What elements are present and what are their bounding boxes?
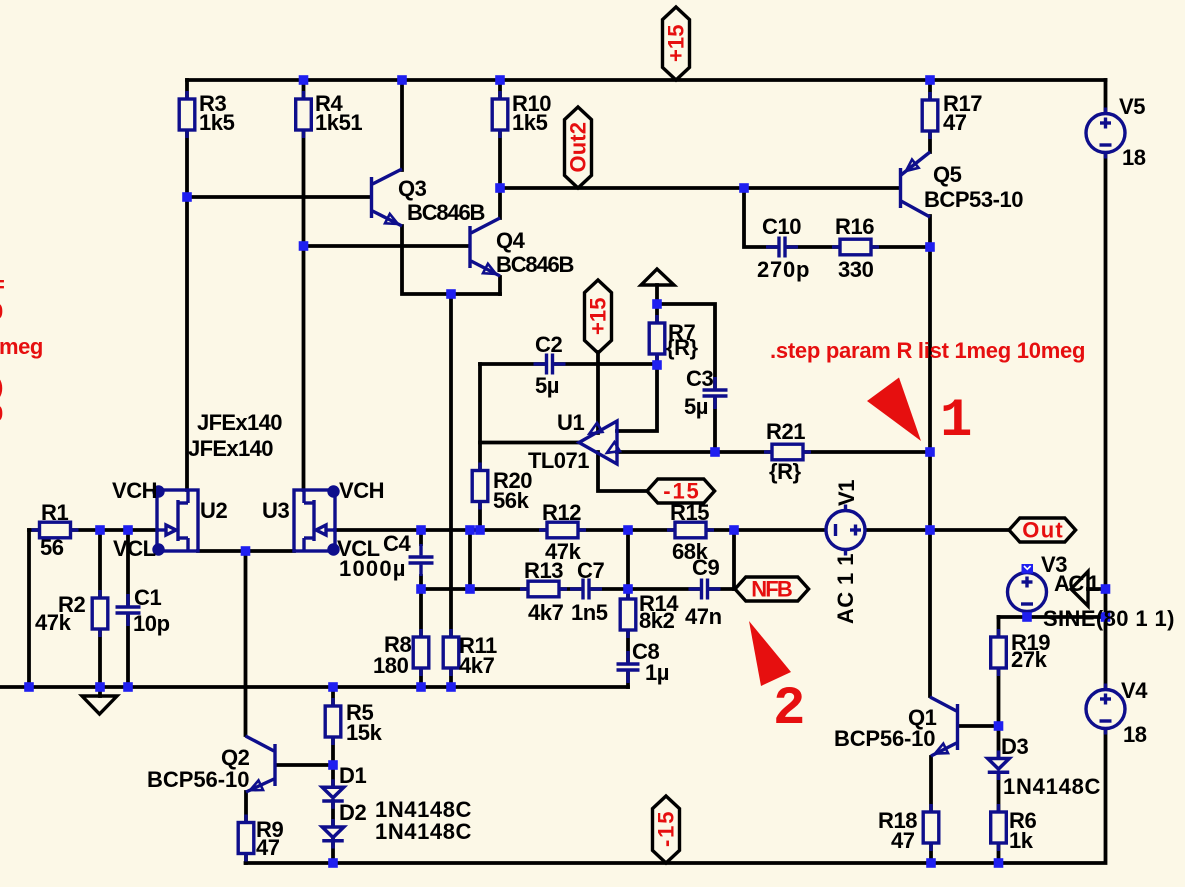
svg-text:2: 2 bbox=[773, 679, 805, 740]
wire R7 branch bbox=[655, 285, 659, 365]
wire R15 to V1 bbox=[706, 528, 826, 532]
resistor R17 bbox=[922, 92, 938, 139]
wire Q2 emitter to R9 bbox=[244, 792, 248, 822]
junction (734,530) bbox=[729, 525, 739, 535]
junction (1027,617) bbox=[1022, 612, 1032, 622]
resistor R20 bbox=[472, 463, 488, 510]
svg-text:JFEx140: JFEx140 bbox=[188, 436, 273, 461]
svg-text:JFEx140: JFEx140 bbox=[197, 410, 282, 435]
wire rail link a bbox=[468, 530, 472, 589]
voltage source V5 bbox=[1086, 108, 1125, 159]
junction (100,687) bbox=[95, 682, 105, 692]
svg-text:AC 1: AC 1 bbox=[1054, 571, 1099, 596]
resistor R1 bbox=[32, 522, 79, 538]
wire Q1 base bbox=[958, 724, 999, 728]
junction (628,530) bbox=[623, 525, 633, 535]
svg-text:D1: D1 bbox=[339, 763, 366, 788]
svg-text:10p: 10p bbox=[133, 611, 170, 636]
svg-text:BC846B: BC846B bbox=[496, 252, 574, 277]
annotation arrow near V3 bbox=[1071, 572, 1088, 607]
wire opamp V- to -15 flag bbox=[598, 452, 647, 491]
junction (1105.5,617) bbox=[1101, 612, 1111, 622]
wire C7 to C9 bbox=[592, 587, 699, 591]
svg-text:D3: D3 bbox=[1001, 734, 1028, 759]
svg-text:BCP53-10: BCP53-10 bbox=[924, 187, 1023, 212]
JFET U2 bbox=[154, 487, 198, 554]
wire rail link b bbox=[626, 530, 630, 589]
wire Q4 base bbox=[304, 244, 470, 248]
junction (480,530) bbox=[475, 525, 485, 535]
svg-text:18: 18 bbox=[1123, 722, 1147, 747]
svg-text:AC 1 1: AC 1 1 bbox=[833, 554, 858, 624]
junction (421,687) bbox=[416, 682, 426, 692]
svg-text:1: 1 bbox=[940, 391, 972, 452]
svg-text:Q5: Q5 bbox=[933, 162, 962, 187]
junction (402,80) bbox=[397, 75, 407, 85]
svg-text:R1: R1 bbox=[41, 500, 68, 525]
wire Q1 emitter to R18 bbox=[929, 757, 933, 812]
svg-text:-15: -15 bbox=[654, 812, 679, 847]
ground bbox=[82, 696, 117, 714]
wire ground mid rail bbox=[0, 685, 628, 689]
junction (998.5,863) bbox=[994, 858, 1004, 868]
svg-text:1k51: 1k51 bbox=[315, 110, 362, 135]
net flag Out (output node) bbox=[1009, 518, 1076, 542]
svg-text:47: 47 bbox=[256, 835, 280, 860]
junction (128,687) bbox=[123, 682, 133, 692]
svg-text:1N4148C: 1N4148C bbox=[375, 819, 472, 844]
resistor R14 bbox=[620, 591, 636, 638]
svg-text:C4: C4 bbox=[383, 531, 411, 556]
resistor R7 bbox=[649, 315, 665, 362]
wire row2 left bbox=[421, 587, 528, 591]
svg-text:1n5: 1n5 bbox=[571, 600, 608, 625]
wire C4 to R8 bbox=[419, 576, 423, 637]
wire D3 to R6 bbox=[997, 773, 1001, 812]
svg-text:+15: +15 bbox=[586, 298, 611, 335]
transistor Q4 bbox=[470, 218, 500, 276]
wire C10 R16 branch bbox=[744, 188, 930, 247]
svg-text:VCH: VCH bbox=[339, 478, 384, 503]
wire to D3 bbox=[997, 726, 1001, 757]
svg-text:47: 47 bbox=[943, 110, 967, 135]
svg-text:V4: V4 bbox=[1121, 678, 1148, 703]
wire V3 stub bbox=[1025, 611, 1029, 617]
svg-text:Q3: Q3 bbox=[398, 176, 427, 201]
junction (744,188) bbox=[739, 183, 749, 193]
junction (451,687) bbox=[446, 682, 456, 692]
svg-text:47k: 47k bbox=[35, 610, 72, 635]
resistor R8 bbox=[413, 629, 429, 676]
red arrow 1 bbox=[867, 378, 921, 442]
wire R19 top bbox=[997, 617, 1001, 637]
net flag NFB (feedback node) bbox=[735, 577, 809, 601]
wire R18 bottom bbox=[929, 845, 933, 863]
svg-text:.step param R list 1meg 10meg: .step param R list 1meg 10meg bbox=[770, 338, 1085, 363]
svg-text:1k: 1k bbox=[1009, 828, 1034, 853]
svg-text:180: 180 bbox=[373, 653, 409, 678]
wire source node to Q2 collector bbox=[244, 551, 248, 735]
resistor R15 bbox=[667, 522, 714, 538]
resistor R3 bbox=[179, 91, 195, 138]
wire Q4 emitter bbox=[498, 277, 502, 294]
svg-text:56k: 56k bbox=[493, 488, 530, 513]
svg-text:Out2: Out2 bbox=[566, 122, 591, 172]
svg-text:1k5: 1k5 bbox=[199, 110, 235, 135]
wire Q4 collector bbox=[498, 188, 502, 218]
red arrow 2 bbox=[749, 621, 791, 686]
svg-text:C7: C7 bbox=[577, 558, 604, 583]
marker V3 top pin bbox=[1022, 564, 1034, 574]
svg-text:Out: Out bbox=[1022, 518, 1063, 543]
wire V5 to V4 right rail bbox=[1104, 152, 1108, 690]
svg-text:C9: C9 bbox=[692, 555, 719, 580]
wire C2 R20 column bbox=[478, 364, 482, 530]
svg-text:VCL: VCL bbox=[337, 536, 380, 561]
junction (931,863) bbox=[926, 858, 936, 868]
svg-text:1k5: 1k5 bbox=[512, 110, 548, 135]
resistor R19 bbox=[991, 629, 1007, 676]
svg-text:C1: C1 bbox=[134, 585, 161, 610]
diode D2 bbox=[322, 819, 344, 849]
wire opamp output bbox=[480, 441, 579, 445]
wire R4 column to U3 drain bbox=[302, 80, 306, 490]
svg-text:+15: +15 bbox=[664, 25, 689, 62]
svg-text:8k2: 8k2 bbox=[639, 608, 675, 633]
svg-text:47: 47 bbox=[891, 828, 915, 853]
capacitor C1 bbox=[116, 605, 141, 614]
wire to V5 bbox=[1104, 80, 1108, 114]
wire R2 top bbox=[98, 530, 102, 598]
junction (470,530) bbox=[465, 525, 475, 535]
wire R12 to R15 bbox=[578, 528, 675, 532]
svg-text:SINE(80 1 1): SINE(80 1 1) bbox=[1043, 606, 1174, 631]
wire D2 to rail bbox=[331, 840, 335, 863]
junction (333,765) bbox=[328, 760, 338, 770]
svg-text:V1: V1 bbox=[834, 480, 859, 506]
voltage source V4 bbox=[1086, 684, 1125, 735]
junction (303.5,80) bbox=[299, 75, 309, 85]
wire R11 bottom bbox=[449, 668, 453, 687]
wire R2 bottom bbox=[98, 628, 102, 687]
wire V1 to Out flag bbox=[865, 528, 1009, 532]
svg-text:R21: R21 bbox=[766, 419, 805, 444]
wire Q3 base bbox=[187, 195, 371, 199]
transistor Q2 bbox=[246, 736, 276, 792]
junction (303.5,246) bbox=[299, 241, 309, 251]
svg-text:VCL: VCL bbox=[113, 536, 156, 561]
capacitor C10 bbox=[777, 237, 786, 258]
svg-text:VCH: VCH bbox=[112, 478, 157, 503]
wire ground stub bbox=[98, 687, 102, 696]
junction (930,530) bbox=[925, 525, 935, 535]
svg-text:R15: R15 bbox=[670, 500, 709, 525]
junction (470,589) bbox=[465, 584, 475, 594]
svg-text:5µ: 5µ bbox=[684, 394, 708, 419]
junction (657,304) bbox=[652, 299, 662, 309]
capacitor C3 bbox=[703, 388, 728, 397]
svg-text:V5: V5 bbox=[1119, 94, 1145, 119]
ground flag above R7 bbox=[641, 269, 674, 285]
svg-text:47n: 47n bbox=[685, 604, 722, 629]
capacitor C7 bbox=[581, 579, 590, 600]
transistor Q5 bbox=[901, 152, 931, 217]
svg-text:4k7: 4k7 bbox=[528, 600, 564, 625]
wire inverting input R21 row bbox=[617, 450, 930, 454]
wire Q3 collector bbox=[400, 80, 404, 170]
resistor R10 bbox=[492, 91, 508, 138]
junction (451,294) bbox=[446, 289, 456, 299]
junction (715,452) bbox=[710, 447, 720, 457]
resistor R2 bbox=[92, 590, 108, 637]
junction (421,530) bbox=[416, 525, 426, 535]
wire R8 bottom bbox=[419, 668, 423, 687]
svg-text:C10: C10 bbox=[762, 214, 801, 239]
junction (333,863) bbox=[328, 858, 338, 868]
wire Q5 collector column bbox=[928, 216, 932, 696]
junction (657,365) bbox=[652, 360, 662, 370]
svg-text:1µ: 1µ bbox=[645, 660, 669, 685]
wire R1 to U2 gate bbox=[29, 528, 157, 532]
op-amp U1 TL071 bbox=[579, 421, 617, 464]
svg-text:R16: R16 bbox=[835, 214, 874, 239]
wire NFB link bbox=[732, 530, 736, 589]
wire node to R11 bbox=[449, 294, 453, 637]
svg-text:BCP56-10: BCP56-10 bbox=[147, 767, 249, 792]
svg-text:27k: 27k bbox=[1011, 647, 1048, 672]
diode D1 bbox=[322, 779, 344, 809]
svg-text:R13: R13 bbox=[524, 558, 563, 583]
wire V3 bottom row bbox=[999, 615, 1106, 619]
wire R3 column to U2 drain bbox=[185, 80, 189, 490]
wire R10 column bbox=[498, 80, 502, 188]
svg-text:NFB: NFB bbox=[751, 577, 792, 602]
junction (333,687) bbox=[328, 682, 338, 692]
junction (628,589) bbox=[623, 584, 633, 594]
wire R13 to C7 bbox=[559, 587, 583, 591]
transistor Q1 bbox=[930, 697, 958, 756]
resistor R18 bbox=[923, 804, 939, 851]
capacitor C2 bbox=[545, 354, 554, 375]
resistor R6 bbox=[991, 804, 1007, 851]
wire Q3 emitter to Q4 emitter row bbox=[402, 226, 500, 294]
svg-text:0: 0 bbox=[0, 401, 3, 426]
svg-text:{R}: {R} bbox=[769, 459, 802, 484]
svg-text:BCP56-10: BCP56-10 bbox=[834, 726, 935, 751]
resistor R11 bbox=[443, 629, 459, 676]
wire R9 bottom bbox=[244, 854, 248, 863]
junction (29,687) bbox=[24, 682, 34, 692]
wire +15 to opamp V+ bbox=[596, 352, 600, 433]
wire R5 bottom bbox=[331, 737, 335, 765]
wire C2 row bbox=[480, 362, 657, 366]
junction (245.5,551) bbox=[241, 546, 251, 556]
net flag Out2 (out2 node) bbox=[565, 107, 592, 188]
wire -15 bottom rail bbox=[246, 728, 1106, 863]
voltage source V3 bbox=[1008, 567, 1047, 618]
svg-text:C3: C3 bbox=[686, 366, 713, 391]
resistor R13 bbox=[520, 581, 567, 597]
wire U2 source to U3 source bbox=[198, 549, 294, 553]
net flag +15 (top rail) bbox=[663, 7, 690, 80]
capacitor C4 bbox=[409, 555, 434, 564]
wire C4 top bbox=[419, 530, 423, 544]
op-amp input polarity arrows bbox=[590, 423, 603, 434]
wire node Out2 to Q5 base bbox=[500, 186, 899, 190]
net flag +15 (opamp V+) bbox=[585, 280, 612, 353]
resistor R12 bbox=[539, 522, 586, 538]
svg-text:{R}: {R} bbox=[666, 335, 699, 360]
svg-text:BC846B: BC846B bbox=[407, 200, 485, 225]
svg-text:5µ: 5µ bbox=[535, 373, 559, 398]
svg-text:R12: R12 bbox=[542, 500, 581, 525]
wire R14 column bbox=[626, 589, 630, 663]
svg-text:meg: meg bbox=[0, 334, 43, 359]
svg-text:0: 0 bbox=[0, 299, 3, 324]
wire R5 top bbox=[331, 687, 335, 706]
svg-text:15k: 15k bbox=[346, 720, 383, 745]
wire annotation stub bbox=[1088, 587, 1106, 591]
capacitor C8 bbox=[617, 662, 640, 671]
svg-text:): ) bbox=[0, 374, 3, 399]
junction (998.5,726) bbox=[994, 721, 1004, 731]
junction (100,530) bbox=[95, 525, 105, 535]
svg-text:1N4148C: 1N4148C bbox=[1003, 774, 1101, 799]
junction (930,80) bbox=[925, 75, 935, 85]
junction (421,589) bbox=[416, 584, 426, 594]
junction (500,80) bbox=[495, 75, 505, 85]
capacitor C9 bbox=[700, 579, 709, 600]
diode D3 bbox=[988, 751, 1010, 781]
junction (128,530) bbox=[123, 525, 133, 535]
svg-text:56: 56 bbox=[40, 535, 64, 560]
svg-text:18: 18 bbox=[1122, 145, 1146, 170]
resistor R5 bbox=[325, 698, 341, 745]
svg-text:U3: U3 bbox=[262, 498, 289, 523]
junction (1105.5,589) bbox=[1101, 584, 1111, 594]
wire Q2 base bbox=[276, 763, 333, 767]
wire +15 top rail bbox=[187, 78, 1106, 82]
wire left column bbox=[27, 530, 31, 687]
wire U3 gate to R12 bbox=[335, 528, 547, 532]
svg-text:TL071: TL071 bbox=[528, 448, 589, 473]
junction (187,197) bbox=[182, 192, 192, 202]
svg-text:=: = bbox=[0, 272, 4, 297]
svg-text:U1: U1 bbox=[557, 410, 584, 435]
junction (500,188) bbox=[495, 183, 505, 193]
junction (930,452) bbox=[925, 447, 935, 457]
resistor R9 bbox=[238, 815, 254, 862]
resistor R21 bbox=[764, 444, 811, 460]
wire R19 to D3 node bbox=[997, 668, 1001, 726]
resistor R4 bbox=[296, 91, 312, 138]
svg-text:U2: U2 bbox=[200, 498, 227, 523]
wire R17 to Q5 emitter bbox=[928, 80, 932, 152]
svg-text:330: 330 bbox=[838, 257, 874, 282]
svg-text:D2: D2 bbox=[339, 800, 366, 825]
wire to D1 bbox=[331, 765, 335, 785]
JFET U3 bbox=[294, 487, 338, 554]
wire C8 bottom bbox=[626, 671, 630, 687]
wire C9 to NFB bbox=[710, 587, 735, 591]
transistor Q3 bbox=[372, 169, 403, 226]
wire C3 branch bbox=[657, 304, 715, 452]
wire C1 column bbox=[126, 530, 130, 687]
svg-text:C2: C2 bbox=[535, 332, 562, 357]
wire opamp noninverting input bbox=[617, 365, 657, 431]
wire R6 bottom bbox=[997, 845, 1001, 863]
resistor R16 bbox=[832, 239, 879, 255]
voltage source V1 bbox=[826, 505, 865, 556]
svg-text:Q4: Q4 bbox=[496, 228, 526, 253]
svg-text:4k7: 4k7 bbox=[459, 653, 495, 678]
junction (930,247) bbox=[925, 242, 935, 252]
svg-text:270p: 270p bbox=[757, 257, 809, 282]
wire D1 to D2 bbox=[331, 801, 335, 824]
net flag -15 (bottom rail) bbox=[653, 796, 680, 863]
net flag -15 (opamp V-) bbox=[647, 479, 715, 503]
